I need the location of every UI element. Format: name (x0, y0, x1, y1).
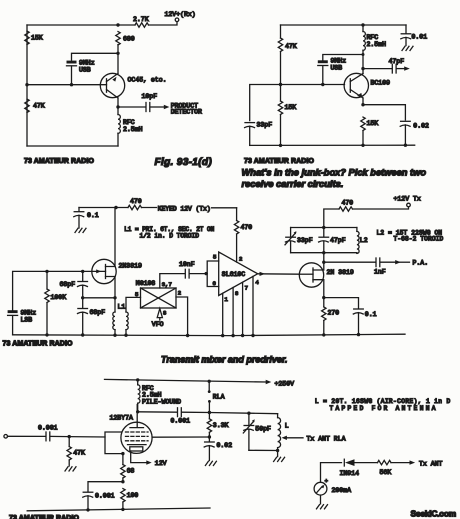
valve 12BY7A envelope (110, 414, 153, 453)
ground under 0.01 (402, 46, 413, 50)
transformer L1 primary (113, 298, 126, 335)
svg-text:73 AMATEUR RADIO: 73 AMATEUR RADIO (3, 340, 74, 347)
pin 1 wire (223, 293, 229, 336)
node rail/pin7 (241, 334, 244, 337)
wire crystal top link (72, 53, 119, 60)
node rail/pin4 (251, 334, 254, 337)
svg-text:DETECTOR: DETECTOR (171, 108, 202, 115)
ground under 0.1 (75, 228, 86, 232)
svg-text:680: 680 (123, 36, 135, 43)
svg-text:L2: L2 (360, 237, 368, 244)
svg-text:LSB: LSB (21, 317, 33, 324)
svg-text:9MHz: 9MHz (21, 310, 37, 317)
node rail/0.001 (86, 508, 89, 511)
svg-text:15K: 15K (367, 120, 379, 127)
svg-text:2.5mH: 2.5mH (123, 126, 143, 133)
node cathode bypass junction (121, 480, 124, 483)
resistor 15K (25, 31, 43, 45)
inductor RFC 2.5mH (2) (363, 25, 386, 50)
node base/bias junction (279, 83, 282, 86)
capacitor 0.001 cathode (83, 492, 115, 510)
svg-text:100: 100 (127, 492, 139, 499)
resistor 47K (2) (278, 38, 297, 52)
wire tank to +12V rail (324, 209, 339, 228)
svg-text:56K: 56K (380, 469, 392, 476)
wire to bypass cap (88, 482, 123, 492)
svg-text:5: 5 (213, 254, 216, 261)
node rail/pin8 (231, 334, 234, 337)
node emitter junction 2 (361, 103, 364, 106)
wire drain to tank (323, 253, 325, 263)
amplifier SL610C (219, 252, 258, 296)
node cathode junction (121, 452, 124, 455)
capacitor 50pF variable (243, 413, 271, 450)
svg-text:0.02: 0.02 (413, 122, 429, 129)
resistor 3.3K (207, 413, 228, 438)
resistor 68 cathode (121, 454, 135, 482)
svg-text:IN914: IN914 (340, 470, 360, 477)
capacitor 0.02 screen (204, 437, 232, 461)
svg-text:USB: USB (79, 66, 91, 73)
resistor 15K (bias) (278, 101, 296, 114)
resistor 470 (+12V) (339, 200, 353, 212)
resistor 100 (121, 489, 139, 511)
svg-text:15K: 15K (285, 104, 297, 111)
node rail/L1 sec (124, 334, 127, 337)
wire meter riser (321, 463, 342, 483)
wire tank bottom bus (291, 252, 357, 254)
svg-text:0.01: 0.01 (412, 33, 428, 40)
svg-text:L = 20T. 16SWG (AIR-CORE), 1 i: L = 20T. 16SWG (AIR-CORE), 1 in D (315, 398, 451, 405)
terminal RF input (4, 435, 8, 439)
svg-text:2: 2 (239, 256, 242, 263)
wire emitter bypass branch (363, 105, 405, 120)
wire amp output with arrow (258, 272, 300, 276)
resistor 56K (378, 460, 410, 475)
svg-text:2.5mH: 2.5mH (367, 41, 387, 48)
wire coupling to antenna tank (209, 413, 277, 414)
wire screen line (152, 436, 209, 438)
ground under tank (274, 451, 285, 462)
node rail/100 (121, 508, 124, 511)
node RLA/coupling junction (208, 411, 211, 414)
svg-text:8: 8 (235, 290, 238, 297)
svg-text:100K: 100K (51, 294, 67, 301)
capacitor 33pF (245, 121, 273, 145)
svg-text:L1: L1 (118, 304, 126, 311)
wire left rail 2 (280, 25, 282, 38)
node tank bottom center (322, 251, 325, 254)
svg-text:KEYED 12V (Tx): KEYED 12V (Tx) (158, 205, 211, 212)
arrow P.A. (395, 260, 428, 267)
capacitor 1nF output (324, 258, 396, 276)
svg-text:0.001: 0.001 (38, 424, 58, 431)
svg-text:OC45, etc.: OC45, etc. (128, 77, 167, 84)
wire tank top bus (291, 227, 357, 229)
svg-text:M0108: M0108 (136, 280, 156, 287)
svg-text:73 AMATEUR RADIO: 73 AMATEUR RADIO (9, 515, 80, 519)
node crystal2/base (321, 83, 324, 86)
inductor RFC pile-wound (138, 380, 181, 412)
pin 2 wire to ground rail (176, 290, 188, 336)
node base/left rail (25, 83, 28, 86)
node rail/15K bias (279, 144, 282, 147)
transistor 2N3819 (mixer FET) (83, 208, 142, 298)
grid loop box (105, 432, 123, 454)
svg-text:470: 470 (241, 224, 253, 231)
wire top rail 2 (281, 24, 407, 26)
terminal +12V Tx (353, 196, 421, 209)
node rail/270 (322, 333, 325, 336)
svg-text:receive carrier circuits.: receive carrier circuits. (242, 179, 344, 189)
arrow Tx ANT (410, 460, 443, 467)
node tank 50pF tap (247, 412, 250, 415)
wire emitter to node 2 (362, 98, 364, 105)
node grid input junction (68, 435, 71, 438)
note L1 winding (124, 226, 214, 240)
svg-text:47pF: 47pF (330, 237, 346, 244)
svg-text:1/2 in. D TOROID: 1/2 in. D TOROID (140, 233, 200, 240)
transistor 2N3819 (predriver FET) (299, 262, 354, 297)
tap arrow Tx ANT RLA (282, 435, 346, 442)
node rail/68pF (81, 333, 84, 336)
svg-text:0.02: 0.02 (217, 442, 233, 449)
resistor 15K (emitter) (361, 117, 379, 145)
note antenna coil (315, 398, 451, 412)
svg-text:15K: 15K (31, 35, 43, 42)
svg-text:PILE-WOUND: PILE-WOUND (142, 398, 181, 405)
pin 4 wire (253, 276, 259, 336)
wire to 12V terminal (149, 22, 178, 25)
svg-text:T-68-2 TOROID: T-68-2 TOROID (394, 236, 444, 243)
svg-text:3.3K: 3.3K (213, 422, 229, 429)
svg-text:470: 470 (342, 200, 354, 207)
node 100K top (45, 270, 48, 273)
resistor 470 (to pin 2) (234, 208, 252, 262)
svg-text:2: 2 (178, 290, 181, 297)
node rail/pin1 (221, 334, 224, 337)
wire gate bias line (13, 271, 83, 309)
resistor 100K (45, 271, 66, 334)
capacitor 0.1 (keyed rail) (74, 208, 99, 229)
svg-text:47K: 47K (33, 102, 45, 109)
resistor 47K (25, 99, 45, 112)
svg-text:Transmit mixer and predriver.: Transmit mixer and predriver. (161, 355, 287, 365)
inductor RFC 2.5mH (118, 107, 143, 146)
wire +250V rail (105, 379, 267, 382)
svg-text:270: 270 (328, 310, 340, 317)
label KEYED 12V (Tx) (142, 205, 237, 212)
crystal 9MHz USB (2) (318, 58, 346, 85)
svg-text:SL610C: SL610C (222, 271, 246, 278)
pin 8 VFO arrow (152, 309, 167, 328)
inductor L2 (357, 228, 368, 254)
terminal 12V+(Rx) (165, 11, 196, 22)
svg-text:2N 3819: 2N 3819 (327, 269, 354, 276)
node rail/L1 pri (113, 334, 116, 337)
wire tank bottom (249, 449, 278, 451)
node crystal2 top (362, 53, 365, 56)
wire keyed 12V rail (79, 207, 128, 209)
transformer L1 secondary (126, 297, 141, 334)
svg-text:Tx ANT RLA: Tx ANT RLA (307, 435, 346, 442)
svg-text:3,7: 3,7 (162, 281, 172, 288)
capacitor 47pF (363, 58, 410, 73)
svg-text:+250V: +250V (275, 381, 295, 388)
mixer M0108 (136, 280, 176, 308)
node rail/0.1 (357, 333, 360, 336)
svg-text:2N3819: 2N3819 (119, 263, 143, 270)
svg-text:10pF: 10pF (142, 93, 158, 100)
pin 7 wire (243, 282, 248, 336)
wire emitter to node (117, 98, 119, 107)
node rail/crystal (45, 333, 48, 336)
capacitor 47pF (tank) (319, 228, 346, 253)
node tank bottom / ground (276, 449, 279, 452)
svg-text:Fig. 93-1(d): Fig. 93-1(d) (155, 157, 213, 168)
valve heater box (130, 447, 143, 451)
svg-text:RFC: RFC (123, 119, 135, 126)
crystal 9MHz LSB (8, 310, 37, 335)
capacitor 0.001 anode coupling (138, 408, 210, 425)
svg-text:33pF: 33pF (297, 237, 313, 244)
capacitor 10pF (118, 93, 164, 112)
wire top rail (27, 24, 135, 26)
pin 5/6 input bracket (207, 254, 219, 288)
svg-text:TAPPED FOR ANTENNA: TAPPED FOR ANTENNA (330, 405, 438, 412)
svg-text:470: 470 (130, 198, 142, 205)
meter 200mA (314, 478, 351, 496)
svg-text:VFO: VFO (152, 321, 164, 328)
node RFC top (361, 23, 364, 26)
node top rail / 680 junction (116, 23, 119, 26)
svg-text:12V: 12V (155, 460, 167, 467)
inductor L antenna (278, 414, 289, 451)
svg-text:200mA: 200mA (332, 487, 352, 494)
svg-text:L: L (285, 423, 289, 430)
capacitor 68pF (lower) (78, 298, 106, 335)
svg-text:RLA: RLA (213, 393, 225, 400)
svg-text:0.1: 0.1 (365, 311, 377, 318)
node rail/RFC anode (136, 378, 139, 381)
node screen junction (208, 435, 211, 438)
svg-text:73 AMATEUR RADIO: 73 AMATEUR RADIO (244, 158, 315, 165)
resistor 470 (keyed) (128, 198, 142, 210)
capacitor 68pF (upper) (60, 271, 88, 297)
node emitter junction (116, 105, 119, 108)
node source divider junction (81, 296, 84, 299)
node anode coupling junction (136, 410, 139, 413)
node crystal/collector (116, 52, 119, 55)
node gate junction (81, 270, 84, 273)
svg-text:P.A.: P.A. (413, 260, 429, 267)
svg-text:SeekIC.com: SeekIC.com (411, 509, 457, 519)
arrow PRODUCT DETECTOR (164, 103, 202, 116)
svg-text:68pF: 68pF (90, 309, 106, 316)
wire 33pF branch (250, 85, 281, 121)
svg-text:0.001: 0.001 (171, 417, 191, 424)
svg-text:12BY7A: 12BY7A (110, 414, 134, 421)
wire base line 2 (281, 84, 345, 86)
node source junction (113, 296, 116, 299)
node rail/0.02 (404, 144, 407, 147)
svg-text:68: 68 (127, 467, 135, 474)
wire collector column 2 (362, 50, 364, 73)
svg-text:1nF: 1nF (374, 269, 386, 276)
pin 8 wire (233, 288, 238, 336)
wire 47K to base node (280, 52, 282, 101)
wire base (27, 84, 107, 86)
node drain junction (322, 261, 325, 264)
svg-text:2.7K: 2.7K (133, 16, 149, 23)
wire bottom ground rail (27, 508, 210, 511)
resistor 2.7K (133, 16, 149, 27)
svg-text:0.1: 0.1 (87, 212, 99, 219)
node rail/RLA (208, 380, 211, 383)
svg-text:8: 8 (163, 310, 166, 317)
svg-text:6: 6 (213, 280, 216, 287)
node tank top center (322, 226, 325, 229)
valve anode (130, 405, 144, 428)
svg-text:33pF: 33pF (257, 121, 273, 128)
svg-text:10nF: 10nF (179, 261, 195, 268)
valve cathode (128, 444, 147, 446)
svg-text:47K: 47K (73, 450, 85, 457)
node collector 47pF tap (361, 67, 364, 70)
wire collector column (117, 45, 119, 73)
resistor 270 (322, 298, 340, 335)
svg-text:What's in the junk-box? Pick b: What's in the junk-box? Pick between two (242, 168, 427, 178)
node rail/pin2 (186, 334, 189, 337)
svg-text:+12V Tx: +12V Tx (394, 196, 421, 203)
wire bottom rail 2 (250, 144, 415, 146)
resistor 680 (116, 32, 135, 46)
svg-text:9MHz: 9MHz (79, 59, 95, 66)
svg-text:50pF: 50pF (255, 426, 271, 433)
svg-text:47K: 47K (285, 43, 297, 50)
svg-text:73 AMATEUR RADIO: 73 AMATEUR RADIO (24, 158, 95, 165)
node source junction 2 (322, 296, 325, 299)
svg-text:7: 7 (245, 285, 248, 292)
diode IN914 (340, 459, 378, 477)
crystal 9MHz USB (67, 59, 95, 84)
capacitor 0.001 input (8, 424, 70, 441)
capacitor 0.01 (401, 25, 427, 46)
node rail/15K emitter (361, 144, 364, 147)
transistor OC45 (100, 73, 166, 98)
svg-text:Tx ANT: Tx ANT (419, 460, 443, 467)
heater 12V arrow (131, 451, 167, 467)
wire left rail (26, 25, 28, 146)
ground under meter (317, 495, 328, 509)
svg-text:9MHz: 9MHz (331, 58, 347, 65)
capacitor 33pF trimmer (285, 228, 313, 253)
pin 3,7 wire and 10nF coupling (160, 261, 206, 288)
resistor 47K grid (67, 437, 85, 466)
wire 15K to rail (280, 115, 282, 146)
capacitor 0.1 (source bypass) (353, 309, 376, 335)
svg-text:12V+(Rx): 12V+(Rx) (165, 11, 196, 18)
wire bottom rail (27, 145, 118, 147)
ground under 47K (65, 467, 76, 471)
capacitor 0.02 (400, 121, 429, 145)
relay contact RLA (208, 381, 225, 412)
ground under 0.02 screen (205, 461, 216, 465)
wire divider to source (83, 297, 115, 299)
wire to grid box (69, 436, 105, 438)
wire crystal 2 top link (323, 55, 363, 61)
node keyed rail / drain column (114, 206, 117, 209)
node base/crystal junction (70, 83, 73, 86)
svg-text:47pF: 47pF (389, 58, 405, 65)
transistor BC109 (344, 73, 390, 98)
valve grids (126, 432, 149, 441)
svg-text:USB: USB (331, 65, 343, 72)
wire middle ground rail (13, 334, 405, 335)
node mixer output junction (205, 272, 208, 275)
svg-text:5: 5 (135, 291, 138, 298)
note L2 winding (377, 230, 444, 243)
wire source bypass branch (324, 298, 359, 309)
svg-text:0.001: 0.001 (95, 492, 115, 499)
arrow +250V (266, 380, 294, 388)
svg-text:BC109: BC109 (371, 79, 391, 86)
svg-text:68pF: 68pF (60, 281, 76, 288)
